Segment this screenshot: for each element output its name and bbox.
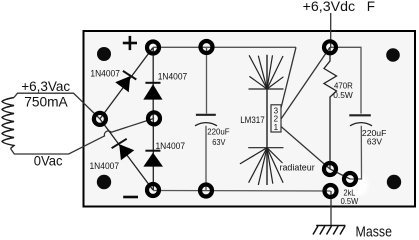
mounting hole top-left bbox=[97, 47, 111, 61]
svg-text:1N4007: 1N4007 bbox=[158, 72, 188, 82]
heatsink top fan bbox=[249, 55, 284, 89]
wire C2 bottom to pad B bbox=[350, 126, 362, 179]
diode D2 1N4007 bbox=[143, 48, 162, 119]
heatsink bottom fan bbox=[240, 148, 284, 185]
svg-text:63V: 63V bbox=[212, 137, 225, 147]
PCB board outline bbox=[84, 31, 416, 207]
svg-text:0Vac: 0Vac bbox=[34, 153, 63, 169]
svg-text:LM317: LM317 bbox=[240, 115, 265, 125]
pad A adj node bbox=[324, 163, 336, 175]
wire corner to LM317 pin3 bbox=[281, 47, 296, 108]
pad P3 regulator out bbox=[324, 41, 336, 53]
svg-text:750mA: 750mA bbox=[24, 93, 68, 109]
pad P7 cap C1 bottom bbox=[200, 185, 212, 197]
plus symbol bbox=[123, 36, 137, 50]
svg-text:0.5W: 0.5W bbox=[333, 90, 353, 100]
svg-text:+6,3Vdc: +6,3Vdc bbox=[303, 0, 356, 14]
pad B resistor R2 top bbox=[344, 173, 356, 185]
wire LM317 pin2 to pad OUT bbox=[281, 47, 330, 119]
svg-text:Masse: Masse bbox=[356, 225, 393, 239]
resistor R1 470R zigzag bbox=[324, 47, 337, 169]
pad P6 bridge minus bbox=[147, 184, 159, 196]
svg-text:+6,3Vac: +6,3Vac bbox=[21, 78, 70, 94]
capacitor C1 plates bbox=[195, 115, 217, 126]
wire pad A to pad B bbox=[330, 169, 350, 179]
wire +6,3Vac from coil to pad AC1 bbox=[14, 93, 100, 119]
wire pad OUT to C2 top bbox=[330, 47, 361, 113]
voltage regulator U1 LM317 body bbox=[271, 105, 281, 132]
svg-text:1N4007: 1N4007 bbox=[90, 69, 120, 79]
svg-text:1N4007: 1N4007 bbox=[156, 141, 186, 151]
svg-text:220uF: 220uF bbox=[207, 127, 229, 137]
wire LM317 pin1 to pad ADJ bbox=[281, 127, 330, 170]
pad AC2 bbox=[148, 112, 160, 124]
mounting hole bottom-left bbox=[97, 175, 111, 189]
svg-text:1: 1 bbox=[274, 123, 279, 132]
wire pad2 down to C1 bbox=[206, 47, 208, 113]
mounting hole top-right bbox=[386, 48, 400, 62]
pad C ground bbox=[325, 185, 337, 197]
wire bottom ground rail bbox=[153, 190, 331, 193]
svg-text:1N4007: 1N4007 bbox=[90, 161, 120, 171]
transformer secondary winding L1 bbox=[2, 98, 14, 149]
diode D3 1N4007 bbox=[100, 119, 153, 190]
pad P2 filter cap top bbox=[201, 41, 213, 53]
wire C1 bottom to pad7 bbox=[205, 126, 207, 191]
diode D1 1N4007 bbox=[100, 48, 153, 119]
mounting hole bottom-right bbox=[387, 175, 401, 189]
heatsink vertical spine bbox=[266, 55, 268, 185]
svg-text:63V: 63V bbox=[367, 137, 382, 147]
wire top rail pad1 to corner bbox=[153, 46, 296, 48]
svg-text:0.5W: 0.5W bbox=[341, 196, 359, 206]
wire pad C down to ground bbox=[330, 191, 332, 226]
diode D4 1N4007 bbox=[143, 118, 163, 190]
ground symbol Masse bbox=[313, 226, 346, 235]
pad AC1 crossed bbox=[94, 113, 106, 125]
pad P1 bridge plus bbox=[147, 42, 159, 54]
wire 0Vac from coil with hop to pad AC2 bbox=[11, 118, 155, 154]
capacitor C2 plates bbox=[349, 115, 372, 126]
svg-text:F: F bbox=[367, 0, 375, 14]
svg-text:radiateur: radiateur bbox=[280, 162, 315, 172]
minus symbol bbox=[123, 196, 138, 199]
wire +6,3Vdc output down to pad OUT bbox=[330, 13, 332, 47]
